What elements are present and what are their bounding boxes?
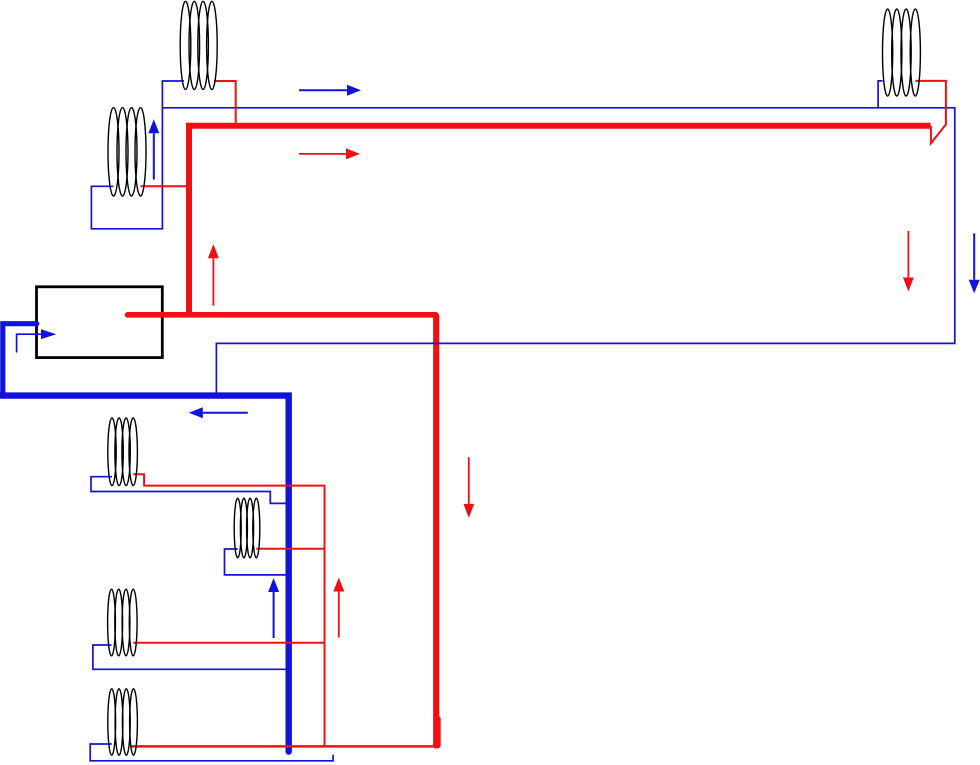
coil 3 (radiator mid-left) (108, 418, 138, 486)
arrow: blue left (above radiator 3) (189, 407, 248, 418)
wire: thin red radiator 3 branch and distribution riser (133, 474, 324, 746)
boiler (black rectangle) (37, 287, 163, 358)
coil 6 (radiator bottom-left) (108, 689, 138, 755)
wire: thin red coil 1 drop to supply pipe (214, 81, 236, 123)
wire: thin red coil 2 to riser (141, 185, 187, 187)
wire: thick red riser and top supply run (189, 126, 931, 318)
wire: blue loop radiator 3 (91, 477, 286, 504)
arrow: red down (top right) (903, 231, 914, 292)
wire: thick red pipe overlap segment at bottom of right drop (435, 719, 441, 745)
wire: thin red coil 7 drop and pipe-end hook (915, 81, 946, 143)
wire: thin red radiator 4 branch (256, 548, 324, 550)
arrow: blue into boiler (pump inlet) (17, 329, 57, 352)
wire: thick red supply pipe from boiler to right drop (128, 312, 437, 318)
coil 4 (small radiator centre) (234, 498, 260, 558)
wire: blue stub coil 7 (top right) (878, 81, 883, 108)
wire: blue loop radiator 5 (93, 645, 286, 669)
arrow: blue right (top supply direction) (299, 85, 361, 96)
arrow: blue down (right edge) (969, 233, 980, 293)
arrow: red down (beside thick red drop) (464, 457, 475, 518)
coil 1 (radiator top-left) (180, 1, 217, 89)
coil 7 (radiator top-right) (883, 9, 921, 96)
coil 2 (radiator upper-left) (108, 108, 146, 196)
wire: thin red bottom run radiator 6 to thick pipe (130, 745, 436, 748)
wire: thin red radiator 5 branch (133, 642, 324, 644)
arrow: red up (beside red distribution riser) (333, 578, 344, 638)
wire: thin blue return main (top run, right drop, mid run, drop to thick pipe) (162, 108, 954, 394)
wire: blue loop radiator 4 (225, 549, 286, 575)
coil 5 (radiator lower-left) (108, 589, 138, 656)
arrow: red right (below blue) (299, 148, 360, 159)
wire: blue loop radiator 6 (90, 744, 333, 761)
arrow: red up (beside thick red riser) (208, 244, 219, 305)
wire: blue riser stub for coils 1 and 2 (top-left) (91, 81, 184, 229)
arrow: blue up (beside coil 2) (148, 119, 159, 179)
wire: thick blue return pipe (boiler inlet, left drop, bottom run, riser down) (3, 324, 37, 396)
arrow: blue up (beside thick blue riser, lower) (268, 578, 279, 638)
